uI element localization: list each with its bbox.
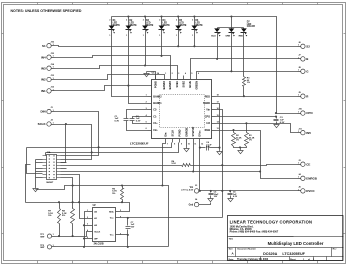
junction dot green	[230, 70, 232, 72]
wire cathode D3	[145, 30, 147, 66]
wire anode D5	[178, 17, 180, 26]
svg-text:1: 1	[53, 78, 54, 80]
ground under ENRGB pin	[184, 147, 189, 152]
wire net CPO pin	[216, 114, 298, 117]
junction dot C4 gnd	[218, 147, 220, 149]
connector S1	[42, 41, 55, 48]
connector SCLK	[38, 120, 55, 127]
junction dot line185 x72	[72, 184, 74, 186]
svg-text:1: 1	[159, 35, 160, 37]
resistor R4 inline	[182, 164, 191, 167]
svg-text:10V: 10V	[214, 196, 218, 198]
wire SCLK wrap to header	[45, 153, 47, 156]
wire header row5 stub	[61, 168, 67, 170]
wire rail B ENRGB	[61, 172, 298, 179]
U2 pin names	[94, 210, 114, 240]
svg-text:9: 9	[181, 144, 182, 146]
capacitor C5	[209, 191, 214, 198]
connector ENRGB	[298, 173, 317, 181]
svg-text:DIN: DIN	[41, 110, 46, 114]
svg-text:2: 2	[146, 101, 147, 103]
svg-text:1: 1	[165, 73, 166, 75]
svg-text:PGND: PGND	[179, 129, 182, 136]
svg-text:1: 1	[298, 95, 299, 97]
svg-text:SUB2: SUB2	[183, 80, 186, 87]
svg-text:5: 5	[120, 210, 121, 212]
wire C4 left	[200, 147, 206, 149]
svg-text:1: 1	[146, 95, 147, 97]
label D4	[163, 19, 171, 27]
connector S2	[298, 42, 311, 49]
junction dot U2 A2	[83, 224, 85, 226]
wire Din line	[27, 143, 172, 148]
wire anode D2	[128, 17, 130, 26]
svg-text:SGND: SGND	[203, 102, 210, 105]
connector G	[298, 67, 310, 74]
wire RGB anode bus	[218, 27, 244, 29]
label R1	[247, 78, 251, 85]
wire bottom rail	[56, 246, 169, 248]
svg-text:1: 1	[53, 56, 54, 58]
svg-text:Sheet: Sheet	[290, 258, 296, 261]
LED D2	[126, 26, 132, 34]
connector CE	[298, 160, 311, 167]
notes text	[11, 9, 82, 13]
resistor R3	[245, 124, 249, 147]
svg-text:BLU: BLU	[211, 36, 216, 38]
capacitor C4	[207, 146, 209, 151]
svg-text:LINEAR TECHNOLOGY CORPORATION: LINEAR TECHNOLOGY CORPORATION	[230, 219, 313, 224]
capacitor C6	[228, 191, 233, 198]
wire cathode D2 to BANK1 pin	[129, 30, 148, 104]
wire header ground ladder	[36, 160, 43, 188]
svg-text:6.3V: 6.3V	[115, 120, 120, 122]
title block size label	[229, 249, 235, 256]
connector IN4	[41, 53, 55, 60]
pin numbers D5	[176, 19, 177, 36]
svg-text:Multidisplay LED Controller: Multidisplay LED Controller	[268, 241, 324, 246]
resistor R2	[232, 131, 236, 147]
U1 pin names	[153, 80, 210, 136]
ground header	[33, 188, 38, 192]
svg-text:Din: Din	[165, 132, 168, 136]
svg-text:1%: 1%	[247, 82, 250, 84]
svg-text:2: 2	[109, 19, 110, 21]
label D1	[113, 20, 121, 27]
wire anode D1	[111, 17, 113, 26]
svg-text:14: 14	[217, 121, 219, 124]
wire STEPUP pin to rail B	[193, 143, 195, 172]
junction dot SDA x72	[72, 201, 74, 203]
label R5	[112, 188, 117, 195]
svg-text:Vin: Vin	[206, 109, 210, 112]
junction dot SDA R7	[58, 201, 60, 203]
svg-text:Title: Title	[229, 238, 234, 241]
svg-text:4: 4	[185, 72, 186, 75]
svg-text:1%: 1%	[249, 140, 252, 142]
svg-text:2: 2	[159, 19, 160, 21]
svg-text:Document Number: Document Number	[238, 248, 257, 251]
svg-text:BANK5: BANK5	[169, 80, 172, 89]
svg-text:CE: CE	[306, 162, 310, 166]
wire cathode D5	[178, 30, 180, 47]
svg-text:11: 11	[194, 144, 196, 146]
capacitor C2	[124, 119, 129, 121]
wire anode D3	[145, 17, 147, 26]
label R2	[236, 135, 242, 141]
svg-text:SUB1: SUB1	[176, 80, 179, 87]
wire cathode D4	[161, 30, 163, 56]
label RED	[239, 36, 244, 38]
title block rev label	[333, 249, 338, 251]
svg-text:2: 2	[126, 19, 127, 21]
svg-text:GREEN: GREEN	[196, 81, 199, 90]
svg-text:10: 10	[188, 144, 190, 146]
svg-text:WHITE: WHITE	[179, 25, 187, 27]
wire net IN5	[216, 124, 298, 133]
wire Vin rail	[199, 190, 298, 192]
label C5	[214, 192, 220, 198]
svg-text:2: 2	[143, 19, 144, 21]
wire SCLK branch to header row3	[61, 125, 66, 163]
test point Vin	[181, 185, 199, 193]
svg-text:Phone: (408) 954-8400 Fax: (: Phone: (408) 954-8400 Fax: (408) 434-050…	[230, 231, 279, 234]
svg-text:1: 1	[126, 35, 127, 37]
U1 pin numbers	[146, 72, 219, 145]
wire net SGND to ground	[216, 104, 220, 150]
svg-text:1: 1	[298, 57, 299, 59]
wire R2 R3 bottom	[234, 147, 247, 148]
wire net IN4	[55, 56, 171, 76]
svg-text:1: 1	[176, 35, 177, 37]
wire net Vin pin down	[216, 110, 223, 218]
svg-text:C1+: C1+	[153, 122, 158, 125]
svg-text:1: 1	[53, 110, 54, 112]
wire header row3 stub	[61, 162, 67, 164]
svg-text:WHITE: WHITE	[146, 25, 154, 27]
label J1A	[47, 151, 51, 154]
junction dot TP1 R8	[72, 235, 74, 237]
svg-text:7: 7	[167, 144, 168, 146]
svg-text:SCLK: SCLK	[38, 122, 47, 126]
label U1	[152, 73, 156, 75]
pin numbers D6	[192, 19, 193, 36]
pin numbers D4	[159, 19, 160, 36]
wire R2R3 center drop	[240, 148, 242, 149]
U2 pin numbers	[87, 210, 121, 239]
wire Gnd tp	[199, 203, 211, 205]
svg-text:BANK0: BANK0	[163, 80, 166, 89]
svg-text:1: 1	[298, 45, 299, 47]
label LTC3205EUF	[130, 141, 149, 145]
junction dot Vcc C7	[127, 217, 129, 219]
junction dot R2 tap	[232, 129, 234, 131]
svg-text:WP: WP	[94, 238, 98, 240]
title block document number	[263, 252, 305, 256]
svg-text:2: 2	[172, 73, 173, 75]
svg-text:1: 1	[109, 35, 110, 37]
wire CPO top rail	[112, 17, 277, 114]
svg-text:24LC02B: 24LC02B	[94, 243, 104, 246]
junction dot C6	[229, 190, 231, 192]
svg-text:CPO: CPO	[205, 115, 210, 118]
label D3	[146, 20, 154, 27]
svg-text:1: 1	[298, 131, 299, 133]
svg-text:1: 1	[298, 112, 299, 114]
svg-text:10V: 10V	[131, 226, 135, 228]
svg-text:1: 1	[53, 44, 54, 46]
wire net G	[197, 72, 298, 76]
title block Title cell label	[229, 238, 234, 241]
label 24LC02B	[94, 243, 104, 246]
junction dot SCLK branch	[65, 123, 67, 125]
junction dot STEPUP	[192, 170, 194, 172]
wire SCLK connector route	[55, 125, 92, 160]
svg-text:2.7V to 4.5V: 2.7V to 4.5V	[181, 189, 194, 192]
wire C2 upper	[127, 110, 148, 119]
svg-text:RED: RED	[239, 36, 244, 38]
svg-text:J3: J3	[195, 185, 197, 187]
junction dot SDA x79	[78, 201, 80, 203]
wire cathode D7 green	[231, 33, 233, 72]
resistor R8	[71, 208, 75, 237]
wire C1 lower	[133, 121, 148, 124]
wire cathode D6	[194, 30, 196, 47]
svg-text:ENRGB: ENRGB	[306, 176, 317, 180]
label C6	[233, 192, 238, 198]
ground at U1 top	[144, 72, 149, 77]
label C2	[136, 116, 141, 123]
svg-text:12: 12	[201, 144, 203, 146]
svg-text:8: 8	[174, 144, 175, 146]
pin numbers D1	[109, 19, 110, 36]
title block underline under phone	[230, 236, 294, 238]
svg-text:WHITE: WHITE	[129, 25, 137, 27]
junction dot Vin rail DVCC	[221, 190, 223, 192]
svg-text:GRN: GRN	[225, 36, 230, 38]
wire TP1 line	[56, 232, 89, 237]
svg-text:RED: RED	[205, 95, 210, 98]
wire SDA line	[26, 203, 130, 212]
title block frame	[228, 216, 344, 261]
wire U2 ground pins	[85, 212, 89, 247]
svg-text:CPO: CPO	[306, 111, 313, 115]
connector DIN	[41, 107, 55, 114]
svg-text:13: 13	[217, 128, 219, 130]
junction dot TP1 R7	[58, 235, 60, 237]
svg-text:Date:: Date:	[229, 258, 234, 261]
junction dot line185 R5	[121, 184, 123, 186]
svg-text:1: 1	[53, 67, 54, 69]
svg-text:LTC3205EUF: LTC3205EUF	[130, 141, 149, 145]
label R3	[249, 135, 255, 141]
junction dot CPO	[275, 112, 277, 118]
wire anode D6	[194, 17, 196, 26]
wire C1 upper	[133, 117, 148, 119]
label U2	[93, 205, 97, 207]
svg-text:2: 2	[87, 217, 88, 219]
title block document number label	[238, 248, 257, 251]
junction dot R2R3	[239, 146, 241, 148]
svg-text:DC629A LTC3205EUF: DC629A LTC3205EUF	[263, 252, 305, 256]
junction dot bottom rail x127	[127, 246, 129, 248]
svg-text:C2-: C2-	[153, 109, 157, 112]
test point TP1	[40, 234, 55, 238]
svg-text:1: 1	[192, 35, 193, 37]
wire C2 lower	[127, 121, 148, 131]
svg-text:BLUE: BLUE	[189, 81, 192, 88]
wire net IN2	[55, 75, 165, 80]
svg-text:COLOR: COLOR	[247, 26, 255, 28]
svg-text:Thursday, February 06, 2003: Thursday, February 06, 2003	[237, 259, 269, 261]
label BLU	[211, 36, 216, 38]
wire net IN3	[55, 66, 178, 76]
label R8	[62, 211, 67, 218]
junction dots on CPO rail	[127, 15, 232, 17]
svg-text:5: 5	[191, 73, 192, 75]
svg-text:24: 24	[157, 72, 159, 75]
junction dot Vss	[127, 234, 129, 236]
label D2	[129, 20, 137, 27]
junction dot SCLK	[91, 151, 93, 153]
resistor R7	[58, 203, 61, 237]
label C1	[115, 116, 120, 123]
svg-text:6.3V: 6.3V	[136, 120, 141, 122]
title block company name	[230, 219, 313, 224]
wire net IN1	[55, 86, 152, 91]
label D7	[247, 21, 255, 28]
wire header row7 to U2 A1	[61, 175, 89, 219]
connector DVCC	[298, 187, 316, 194]
svg-text:SCLK: SCLK	[172, 130, 175, 137]
ground under C3	[274, 124, 279, 128]
wire SCLK line	[46, 143, 179, 153]
svg-text:NOTES: UNLESS OTHERWISE SPECIF: NOTES: UNLESS OTHERWISE SPECIFIED	[11, 9, 82, 13]
svg-text:1: 1	[298, 163, 299, 165]
label GRN	[225, 36, 230, 38]
svg-text:SDA: SDA	[109, 210, 114, 213]
junction dot C5	[210, 190, 212, 192]
junction dot U2 WP	[83, 237, 85, 239]
svg-text:S2: S2	[306, 44, 310, 48]
wire DVcc pin down	[199, 143, 201, 191]
pin numbers D2	[126, 19, 127, 36]
svg-text:SMT: SMT	[40, 236, 45, 238]
ground under C6	[228, 198, 233, 202]
svg-text:1%: 1%	[236, 140, 239, 142]
connector R	[298, 92, 310, 99]
svg-text:6.3V: 6.3V	[233, 196, 238, 198]
junction dot DVcc rail	[199, 190, 201, 192]
svg-text:SCLK: SCLK	[94, 231, 100, 233]
wire DIN connector route	[55, 112, 99, 156]
junction dot Din	[98, 146, 100, 148]
label D6	[195, 20, 203, 27]
wire net RED	[216, 96, 298, 98]
LED D5	[175, 26, 181, 34]
svg-text:of: of	[308, 259, 310, 261]
svg-text:ENRGB: ENRGB	[185, 127, 188, 136]
svg-text:IN1: IN1	[41, 89, 46, 93]
svg-text:1: 1	[298, 177, 299, 179]
svg-text:5%: 5%	[112, 193, 115, 195]
junction dot blue	[216, 58, 218, 60]
wire line185	[36, 186, 169, 247]
svg-text:BANK2: BANK2	[153, 95, 162, 98]
wire U2 Vss	[120, 234, 128, 236]
junction dot R1 bottom	[243, 95, 245, 97]
svg-text:PGND: PGND	[154, 81, 157, 88]
wire C4 right to ground	[210, 147, 220, 149]
LED D1	[109, 26, 116, 34]
junction dot D5	[177, 45, 179, 47]
capacitor C7	[126, 218, 131, 247]
svg-text:SHDET: SHDET	[46, 182, 54, 184]
svg-text:IN5: IN5	[306, 131, 311, 135]
svg-text:BANK1: BANK1	[153, 102, 162, 105]
label header bottom	[46, 182, 54, 184]
svg-text:C2+: C2+	[153, 129, 158, 132]
resistor R5	[121, 186, 124, 203]
svg-text:5.1K: 5.1K	[172, 163, 177, 165]
junction dot R3 tap	[245, 122, 247, 124]
connector IN2	[41, 75, 55, 82]
LED D7 blue element	[214, 28, 220, 37]
svg-text:6: 6	[146, 128, 147, 130]
label C4	[206, 141, 212, 148]
wire cathode D1 to BANK2 pin	[112, 30, 148, 97]
LED D3	[142, 26, 148, 34]
wire pin7 to SDA line	[163, 143, 166, 186]
wire net RGB pin	[216, 131, 261, 172]
title block title text	[268, 241, 324, 246]
wire Din wrap to header	[27, 148, 43, 174]
test point TP2	[40, 245, 55, 249]
wire net B	[191, 59, 298, 76]
svg-text:J1A: J1A	[47, 151, 51, 154]
connector IN5	[298, 128, 312, 135]
label R4	[172, 160, 177, 165]
svg-text:RGB: RGB	[205, 129, 211, 132]
label R7	[48, 211, 53, 218]
junction dot Vin rail A	[221, 164, 223, 166]
junction dot bottom rail x84	[83, 246, 85, 248]
test point Gnd	[189, 198, 199, 207]
svg-text:1: 1	[53, 234, 54, 236]
svg-text:2: 2	[176, 19, 177, 21]
label C3	[280, 117, 285, 124]
svg-text:1: 1	[53, 245, 54, 247]
svg-text:C1-: C1-	[153, 115, 157, 118]
svg-text:DVCC: DVCC	[306, 189, 315, 193]
svg-text:1: 1	[298, 70, 299, 72]
LED D4	[159, 26, 165, 34]
junction dot RGB rail B	[259, 170, 261, 172]
ground under R2 R3	[238, 149, 243, 154]
wire net S1-S2	[55, 46, 298, 47]
svg-text:1: 1	[143, 35, 144, 37]
junction dot pin7 SDA	[161, 184, 163, 186]
svg-text:3: 3	[178, 73, 179, 75]
LED D7 red element	[241, 28, 248, 37]
capacitor C1	[130, 119, 135, 121]
svg-text:WHITE: WHITE	[113, 25, 121, 27]
wire cathode D7 red to R1	[243, 33, 245, 76]
label D5	[179, 20, 187, 27]
ground under SGND	[217, 150, 222, 155]
svg-text:DVcc: DVcc	[199, 130, 202, 137]
svg-text:WHITE: WHITE	[195, 25, 203, 27]
